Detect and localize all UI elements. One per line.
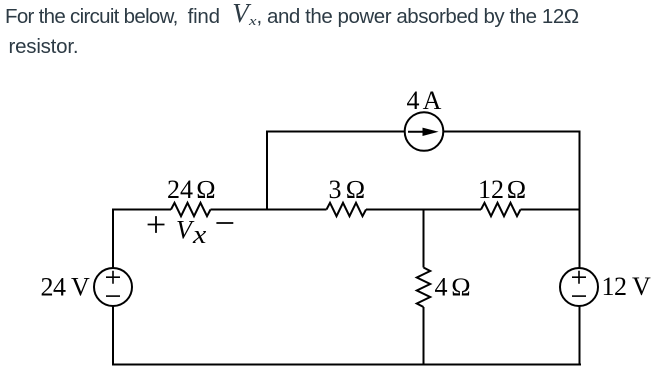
wire: vertical branch node B up to top rail bbox=[266, 132, 268, 209]
svg-text:12 Ω: 12 Ω bbox=[478, 175, 526, 204]
wire: 4ohm branch upper (node C down to resistor) bbox=[423, 210, 425, 268]
V2 plus sign bbox=[572, 271, 586, 284]
minus sign of Vx bbox=[216, 222, 233, 224]
wire: mid rail segment 3ohm to 12ohm with junction at node C bbox=[366, 209, 481, 211]
wire: mid rail segment 12ohm to right rail bbox=[521, 209, 581, 211]
wire: top rail right segment from 4A source to right rail bbox=[443, 131, 580, 133]
I1 arrow bbox=[408, 128, 439, 136]
svg-text:4 Ω: 4 Ω bbox=[435, 273, 471, 302]
svg-text:24 Ω: 24 Ω bbox=[167, 175, 216, 204]
wire: top rail left segment to 4A source bbox=[266, 131, 405, 133]
svg-text:24 V: 24 V bbox=[41, 272, 91, 301]
resistor R1 24ohm zigzag bbox=[171, 203, 211, 216]
resistor R4 4ohm vertical zigzag bbox=[417, 268, 430, 308]
wire: 4ohm branch lower (resistor to bottom rail) bbox=[423, 307, 425, 365]
wire: right rail lower (12V source to bottom rail) bbox=[579, 306, 581, 366]
plus sign of Vx bbox=[148, 216, 165, 233]
V1 minus sign bbox=[106, 295, 120, 297]
wire: mid rail segment 24ohm to 3ohm with junction at node B bbox=[211, 209, 327, 211]
wire: left vertical lower (24V source bottom to bottom rail) bbox=[112, 306, 114, 365]
wire: right rail upper (top rail down past node D to 12V source) bbox=[579, 132, 581, 269]
wire: left vertical upper (node A to 24V source top) bbox=[112, 209, 114, 269]
svg-text:12 V: 12 V bbox=[602, 272, 652, 301]
V1 plus sign bbox=[106, 271, 120, 284]
wire: bottom rail bbox=[112, 364, 581, 366]
V2 minus sign bbox=[572, 295, 586, 297]
wire: mid rail segment from node A to 24ohm resistor bbox=[112, 209, 171, 211]
voltage source V1 24V circle bbox=[94, 268, 132, 306]
svg-text:3 Ω: 3 Ω bbox=[329, 175, 366, 204]
voltage source V2 12V circle bbox=[560, 268, 598, 306]
svg-text:4 A: 4 A bbox=[407, 86, 442, 115]
current source I1 4A circle bbox=[405, 112, 444, 151]
resistor R3 12ohm zigzag bbox=[481, 203, 521, 216]
svg-text:x: x bbox=[192, 221, 207, 250]
resistor R2 3ohm zigzag bbox=[327, 203, 367, 216]
